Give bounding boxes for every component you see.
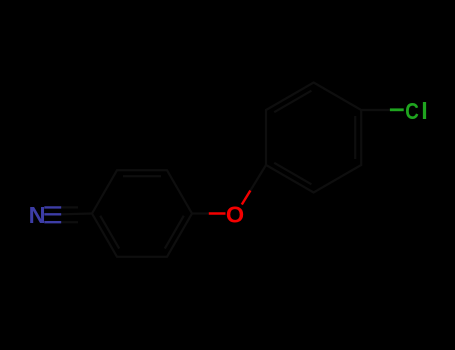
svg-text:C: C [405, 98, 419, 124]
svg-text:O: O [226, 201, 244, 227]
svg-text:l: l [421, 98, 428, 124]
svg-text:N: N [29, 202, 46, 228]
